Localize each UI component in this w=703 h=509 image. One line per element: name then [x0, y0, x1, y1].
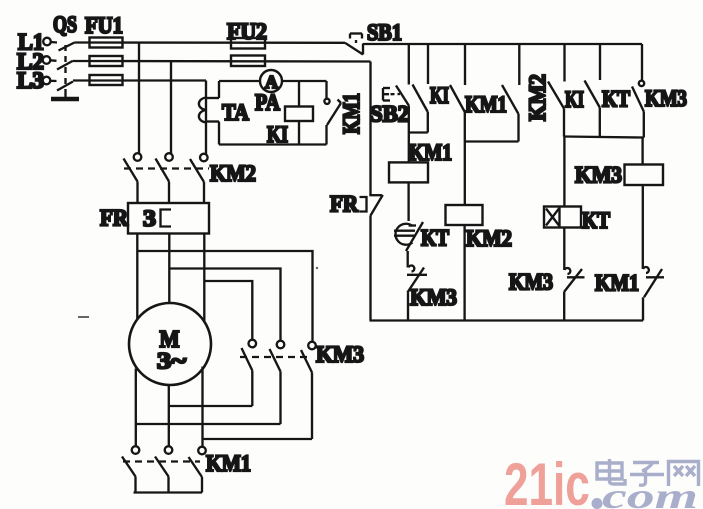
fuse FU2 pole 2 [231, 56, 265, 67]
switch QS label [53, 12, 77, 37]
wire KM3 pole 3 down [311, 373, 313, 440]
svg-text:KM2: KM2 [466, 226, 512, 251]
wire phase A drop [138, 43, 140, 154]
svg-text:FR: FR [330, 192, 358, 217]
wire motor lead U lower [135, 369, 137, 447]
contactor KM3 main pole 1 [242, 340, 257, 371]
fuse FU1 pole 1 [90, 38, 123, 48]
switch QS handle bar [51, 92, 79, 99]
wire KM3 NC to bottom bus [407, 293, 409, 321]
scan noise dot [316, 267, 318, 269]
svg-text:FU2: FU2 [227, 19, 267, 44]
svg-text:KI: KI [430, 83, 449, 108]
wire node to KT coil [563, 137, 565, 207]
fuse FU1 pole 2 [90, 56, 123, 66]
wire TA secondary loop left [218, 81, 220, 145]
contact KM2 holding vertical label [525, 74, 550, 121]
watermark dot [592, 498, 603, 509]
svg-text:KM3: KM3 [410, 285, 457, 310]
motor M 3-phase [129, 303, 211, 385]
scan noise dash [78, 316, 89, 318]
wire KM3 coil to KM1 NC [642, 185, 644, 269]
svg-text:KM1: KM1 [595, 271, 639, 296]
wire TA secondary loop top [219, 80, 327, 82]
contact KI accel branch [548, 44, 565, 137]
switch QS pole 3 [43, 77, 73, 91]
svg-text:KI: KI [565, 87, 584, 112]
pushbutton SB1 (NC stop) [345, 34, 363, 55]
contact KM1 shunt vertical label [339, 93, 364, 134]
watermark 21ic [504, 452, 590, 509]
wire FR to motor lead V [168, 234, 170, 304]
wire node to KM1 coil [408, 133, 410, 163]
contactor KM2 main pole 2 [156, 153, 173, 181]
wire motor U to KM3 pole 2 [136, 423, 281, 425]
fuse FU1 pole 3 [90, 75, 123, 85]
watermark com [602, 476, 698, 509]
svg-text:KT: KT [602, 87, 630, 112]
svg-text:FU1: FU1 [85, 13, 123, 38]
contactor KM1 main pole 2 [155, 446, 172, 476]
coil KM2 [446, 205, 483, 225]
contactor KM2 main pole 1 [124, 153, 142, 181]
svg-text:FR: FR [100, 206, 128, 231]
contactor KM3 main contacts label [316, 342, 364, 367]
wire control bottom bus [370, 319, 644, 321]
svg-text:3: 3 [143, 206, 156, 231]
contact KM1 lower label [595, 271, 639, 296]
ammeter PA label [255, 90, 280, 115]
contact KT accel branch [585, 44, 601, 137]
contactor KM1 main pole 3 [189, 447, 206, 477]
wire KM1 NC to bus [642, 297, 644, 320]
wire left rail from L2 [369, 62, 371, 195]
wire motor lead V lower [168, 385, 170, 446]
switch QS pole 2 [43, 56, 73, 69]
coil KM1 label [409, 140, 452, 165]
pushbutton SB1 label [367, 20, 402, 45]
wire TA secondary taps [206, 98, 219, 122]
pushbutton SB2 label [370, 102, 409, 127]
wire KM2 coil to bottom bus [463, 225, 465, 321]
coil KT label [582, 208, 610, 233]
wire KM3 pole 2 down [279, 372, 281, 425]
svg-text:KT: KT [421, 226, 449, 251]
wire holding contacts join [465, 140, 519, 142]
wire L3 phase [73, 79, 206, 81]
svg-text:A: A [265, 72, 278, 92]
svg-text:com: com [602, 476, 698, 509]
pushbutton SB2 branch upper wire [408, 44, 410, 85]
contactor KM1 main contacts label [206, 451, 251, 476]
contact FR thermal NC [360, 195, 383, 216]
wire SB2 lower [408, 106, 410, 133]
wire phase B drop [170, 61, 172, 154]
contactor KM3 main pole 3 [301, 342, 316, 373]
contactor KM2 linkage dashed [124, 167, 209, 169]
contact KT label [421, 226, 449, 251]
wire KT to KM3 NC [407, 251, 409, 268]
contact KI accel label [565, 87, 584, 112]
watermark text dianziwang [597, 459, 699, 486]
contact KT accel label [602, 87, 630, 112]
svg-text:KT: KT [582, 208, 610, 233]
svg-text:QS: QS [53, 12, 77, 37]
wire accel node [564, 137, 644, 138]
svg-text:KM1: KM1 [206, 451, 251, 476]
svg-text:KM2: KM2 [525, 74, 550, 121]
node L2 label [17, 49, 44, 74]
svg-text:KM3: KM3 [509, 270, 553, 295]
contactor KM2 main pole 3 [190, 154, 208, 182]
wire junction A to KM3 pole 3 [137, 251, 312, 342]
svg-text:L3: L3 [17, 68, 44, 93]
wire motor lead W lower [201, 367, 203, 447]
relay coil KI label [267, 122, 288, 147]
svg-text:KM3: KM3 [645, 86, 687, 111]
thermal relay FR label [100, 206, 128, 231]
contact KI label [430, 83, 449, 108]
wire FR to motor lead W [203, 234, 205, 323]
contact KM3 accel branch [632, 44, 644, 138]
node L1 label [18, 30, 44, 55]
svg-text:TA: TA [222, 100, 249, 125]
wire KM1 poles to star point [136, 477, 203, 493]
contact KM1 holding label [465, 92, 507, 117]
contact KM3 lower label [509, 270, 553, 295]
wire L2 phase [73, 60, 371, 63]
contactor KM3 main pole 2 [270, 341, 285, 372]
wire FR to motor lead U [136, 234, 138, 321]
wire junction B to KM3 pole 2 [169, 269, 280, 341]
coil KM3 label [575, 163, 622, 188]
coil KM1 [389, 162, 428, 182]
wire KM3 pole 1 down [251, 371, 253, 407]
contact KM3 accel label [645, 86, 687, 111]
contact KM1 holding branch [450, 44, 465, 142]
switch QS linkage dashed [64, 45, 66, 92]
contact KI self-start branch [413, 44, 429, 133]
thermal relay FR box [128, 203, 209, 234]
relay coil KI [285, 81, 313, 145]
fuse FU1 label [85, 13, 123, 38]
svg-text:KM3: KM3 [316, 342, 364, 367]
contactor KM1 linkage dashed [123, 460, 200, 462]
coil KM2 label [466, 226, 512, 251]
node L3 label [17, 68, 44, 93]
coil KM3 [625, 165, 664, 186]
svg-text:KI: KI [267, 122, 288, 147]
coil KT (delay) [544, 207, 581, 228]
wire TA secondary loop bottom [219, 143, 327, 145]
svg-text:KM3: KM3 [575, 163, 622, 188]
wire KI to SB2 join [409, 131, 428, 133]
contact KM3 interlock NC [407, 266, 427, 293]
wire to KM2 coil [464, 142, 466, 206]
svg-text:SB1: SB1 [367, 20, 402, 45]
svg-text:KM1: KM1 [465, 92, 507, 117]
svg-text:3~: 3~ [157, 349, 186, 374]
wire motor V to KM3 pole 1 [169, 405, 253, 407]
wire phase C drop through TA [205, 81, 207, 155]
contactor KM3 linkage dashed [240, 356, 311, 358]
transformer TA label [222, 100, 249, 125]
contact KM1 lower NC [643, 267, 664, 297]
fuse FU2 pole 1 [231, 38, 265, 49]
contact KM3 lower NC [564, 268, 585, 292]
wire KM3 NC to bus [563, 292, 565, 321]
contact FR label [330, 192, 358, 217]
wire KT coil to KM3 NC [563, 228, 565, 271]
contact KT delayed NC [394, 222, 423, 251]
wire KM1 coil to KT contact [409, 182, 416, 225]
contactor KM2 main contacts label [210, 161, 256, 186]
wire L1 phase [75, 41, 346, 44]
svg-text:KM2: KM2 [210, 161, 256, 186]
contact KM3 interlock label [410, 285, 457, 310]
svg-text:21ic: 21ic [504, 452, 590, 509]
wire left rail lower [369, 216, 371, 321]
svg-text:KM1: KM1 [339, 93, 364, 134]
transformer TA primary bumps [199, 98, 206, 123]
wire star point bus [134, 491, 203, 493]
pushbutton SB2 (NO start) [383, 86, 409, 106]
wire junction C to KM3 pole 1 [204, 281, 252, 340]
ammeter PA [260, 70, 282, 92]
contactor KM1 main pole 1 [122, 446, 139, 476]
svg-text:SB2: SB2 [370, 102, 409, 127]
contact KM1 ammeter shunt [324, 81, 341, 145]
wire control top bus [363, 43, 642, 45]
svg-text:PA: PA [255, 90, 280, 115]
contact KM2 holding branch [502, 44, 519, 142]
fuse FU2 label [227, 19, 267, 44]
wire node to KM3 coil [641, 138, 643, 165]
switch QS pole 1 [43, 38, 74, 51]
wire motor W to KM3 pole 3 [203, 438, 313, 440]
wire KM2 poles to FR [138, 182, 205, 204]
